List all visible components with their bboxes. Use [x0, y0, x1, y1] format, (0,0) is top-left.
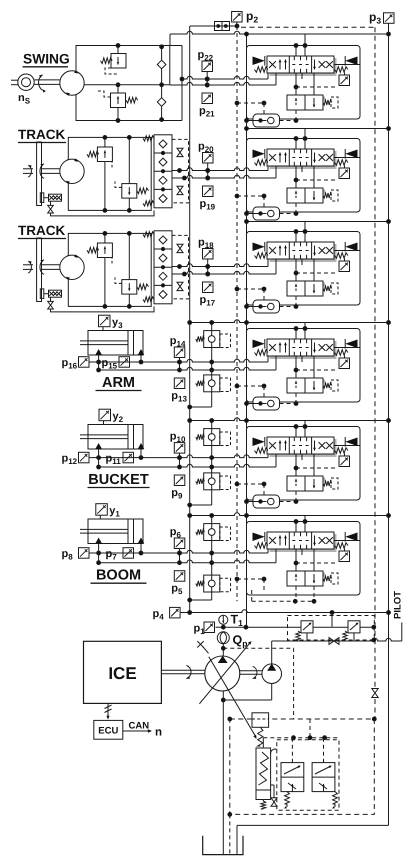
section S3 pilot dashes: [237, 288, 264, 290]
section S1 work port risers: [267, 73, 269, 79]
section S3 right link: [334, 250, 360, 252]
section S1 compensator: [289, 97, 325, 101]
svg-text:TRACK: TRACK: [18, 223, 65, 238]
counterbalance valve block: [156, 135, 172, 140]
flow meter Qp: [217, 632, 229, 644]
dashed LS line: [223, 648, 293, 719]
swing motor M1: [60, 71, 84, 95]
case drain: [197, 641, 203, 647]
rotation arrow: [39, 75, 43, 91]
track tread: [37, 142, 42, 206]
work line A: [90, 359, 269, 362]
work line B: [99, 560, 276, 563]
section S5 shuttle valve: [253, 495, 280, 508]
port arrows: [95, 443, 102, 449]
track motor: [60, 255, 84, 279]
work line A: [90, 455, 269, 458]
valve V3 sensor box: [344, 259, 346, 262]
section S5 frame: [247, 427, 361, 501]
section S4 pilot dashes: [237, 385, 264, 387]
ICE engine block: [84, 641, 162, 703]
pilot solenoid y3: [99, 315, 111, 327]
counterbalance pilot box: [172, 139, 189, 203]
pilot relief valve PRV2: [348, 621, 360, 633]
section S2 compensator feeds: [295, 166, 297, 188]
brake actuator: [40, 193, 44, 203]
section S6 feed line: [190, 513, 389, 516]
section S6 riser: [304, 516, 306, 522]
svg-text:BUCKET: BUCKET: [88, 472, 149, 488]
wire dashed border top: [241, 26, 375, 28]
pilot relief valve PRV1: [301, 621, 313, 633]
sensor p17: [203, 282, 214, 293]
cylinder ARM: [88, 331, 143, 356]
temperature sensor T1: [219, 615, 228, 624]
valve V6 sensor box: [344, 549, 346, 552]
pressure reducing valve lower: [204, 473, 220, 490]
pressure reducing valve upper: [204, 524, 220, 541]
pressure reducing valve lower: [204, 575, 220, 592]
wire to work lines: [211, 348, 213, 371]
valve V3 spring left: [255, 253, 268, 259]
valve V5 pilot cap left: [253, 438, 265, 447]
wire drain: [211, 392, 213, 407]
shaft: [42, 264, 60, 266]
valve V6 spring right: [335, 543, 348, 549]
tank T: [203, 836, 243, 855]
pressure reducing valve lower: [204, 375, 220, 392]
pilot control valve PC2: [312, 763, 335, 792]
swing circuit box: [76, 46, 170, 121]
valve V4 spring right: [335, 350, 348, 356]
valve V2 pilot cap left: [253, 150, 265, 159]
section S4 feed line: [190, 320, 389, 323]
section S4 frame: [247, 329, 361, 403]
section S6 pilot drain dashes: [295, 586, 297, 601]
relief valve 2: [128, 233, 130, 279]
filter F1: [215, 22, 223, 31]
section S6 work port risers: [267, 549, 269, 553]
section S2 work port risers: [267, 166, 269, 171]
wire pilot filter line: [190, 25, 237, 27]
regulator pilot dashes: [263, 737, 339, 739]
valve section V6 body: [270, 548, 337, 553]
work line B: [99, 464, 276, 467]
valve V6 pilot cap left: [253, 533, 265, 542]
track circuit box: [68, 137, 151, 210]
section S4 right link: [334, 347, 360, 349]
section S5 compensator feeds: [295, 454, 297, 476]
wire pilot pressure line: [219, 626, 374, 628]
valve section V2 body: [270, 165, 337, 170]
wire drain: [211, 490, 213, 505]
work line A: [172, 168, 268, 171]
section S2 riser: [304, 129, 306, 139]
section S1 shuttle valve: [253, 114, 280, 127]
svg-text:ICE: ICE: [108, 664, 136, 683]
pressure reducing valve upper: [204, 331, 220, 348]
valve V1 spring left: [255, 67, 268, 73]
brake drain wire: [51, 306, 155, 312]
work line B: [170, 82, 276, 85]
work line A: [172, 264, 268, 267]
port arrows: [95, 538, 102, 544]
section S4 riser: [304, 323, 306, 329]
valve V5 pilot cap right: [345, 438, 357, 447]
valve V5 spring left: [255, 448, 268, 454]
wire dashed pilot rail: [236, 26, 238, 601]
valve V2 spring right: [335, 160, 348, 166]
section S6 compensator: [289, 573, 325, 577]
valve V3 pilot cap left: [253, 243, 265, 252]
pilot control valve PC1: [281, 763, 304, 792]
section S5 right link: [334, 445, 360, 447]
pilot valve dashed box: [288, 616, 375, 641]
pump suction line: [222, 691, 224, 855]
sensor p19: [203, 186, 214, 197]
wire swing mid: [84, 84, 170, 86]
relief valve 2: [128, 137, 130, 183]
section S1 right link: [334, 64, 360, 66]
section S1 riser: [304, 34, 306, 46]
valve V1 pilot cap right: [345, 57, 357, 66]
valve section V5 body: [270, 453, 337, 458]
cylinder BUCKET: [88, 425, 143, 450]
main pump P1: [205, 656, 240, 691]
valve V5 spring right: [335, 448, 348, 454]
gear pump P2: [262, 664, 282, 684]
brake drain wire: [51, 210, 155, 216]
regulator inner dashed box: [277, 740, 339, 811]
section S2 right link: [334, 157, 360, 159]
valve V4 pilot cap left: [253, 340, 265, 349]
section S5 work port risers: [267, 454, 269, 458]
check valves: [160, 45, 164, 49]
gear pump suction: [271, 684, 273, 701]
shaft: [42, 168, 60, 170]
section S4 shuttle valve: [253, 397, 280, 410]
section S6 right link: [334, 540, 360, 542]
section S5 pilot dashes: [237, 483, 264, 485]
counterbalance pilot box: [172, 235, 189, 299]
sensor p21: [202, 93, 213, 104]
pressure reducing valve upper: [204, 429, 220, 446]
pump link shaft: [240, 670, 263, 672]
valve V2 sensor box: [344, 166, 346, 169]
valve V2 pilot cap right: [345, 150, 357, 159]
work line B: [172, 175, 276, 178]
section S3 frame: [247, 232, 361, 306]
return line: [237, 824, 389, 826]
closed port X drain: [329, 638, 339, 645]
regulator spool: [256, 748, 271, 790]
sensor p13: [174, 378, 185, 389]
svg-text:SWING: SWING: [23, 52, 70, 67]
section S2 shuttle valve: [253, 207, 280, 220]
section S6 pilot dashes: [237, 578, 264, 580]
section S1 pilot dashes: [237, 102, 264, 104]
valve V1 pilot cap left: [253, 57, 265, 66]
section S1 compensator feeds: [295, 73, 297, 95]
relief valve: [104, 233, 106, 243]
pilot solenoid y1: [96, 504, 108, 516]
regulator dashed frame: [230, 719, 374, 814]
brake actuator: [40, 289, 44, 299]
wire main feed rail: [246, 34, 248, 627]
ECU box: [94, 720, 123, 739]
swash feedback arrow: [209, 657, 256, 738]
section S3 work port risers: [267, 259, 269, 267]
wire pump discharge: [222, 644, 224, 657]
valve V4 spring left: [255, 350, 268, 356]
section S3 shuttle valve: [253, 300, 280, 313]
wire left pilot rail: [189, 26, 191, 613]
section S3 compensator: [289, 283, 325, 287]
closed port X on border: [372, 689, 378, 698]
valve section V1 body: [270, 72, 337, 77]
work line B: [99, 367, 276, 370]
work line B: [172, 271, 276, 274]
valve section V4 body: [270, 355, 337, 360]
section S2 compensator: [289, 190, 325, 194]
shaft: [35, 79, 60, 81]
wire to work lines: [211, 446, 213, 468]
valve V1 spring right: [335, 67, 348, 73]
section S5 compensator: [289, 478, 325, 482]
section S2 frame: [247, 139, 361, 213]
section S5 riser: [304, 421, 306, 427]
valve section V3 body: [270, 258, 337, 263]
section S6 compensator feeds: [295, 549, 297, 571]
section S4 compensator feeds: [295, 356, 297, 378]
section S2 feed line: [247, 128, 389, 130]
valve V3 pilot cap right: [345, 243, 357, 252]
wire pilot supply: [272, 638, 402, 641]
wire drain: [211, 592, 213, 600]
section S4 compensator: [289, 380, 325, 384]
relief valve RV1: [117, 46, 119, 54]
section S2 pilot dashes: [237, 195, 264, 197]
wire right pilot rail: [388, 23, 390, 825]
track tread: [37, 238, 42, 302]
valve V1 sensor box: [344, 73, 346, 76]
track motor: [60, 159, 84, 183]
section S1 frame: [247, 46, 361, 120]
relief valve RV2: [117, 85, 119, 93]
section S3 riser: [304, 222, 306, 232]
port arrows: [95, 349, 102, 355]
pilot solenoid y2: [99, 409, 111, 421]
sensor p9: [174, 475, 185, 486]
valve V2 spring left: [255, 160, 268, 166]
drive shaft: [161, 669, 205, 671]
sensor p5: [174, 571, 185, 582]
wire to work lines: [211, 541, 213, 563]
svg-text:n: n: [155, 727, 162, 739]
work line A: [182, 76, 268, 79]
electric line to ECU: [107, 703, 109, 717]
wire return line: [180, 610, 388, 613]
work line A: [90, 550, 269, 553]
wire dashed border right: [374, 27, 376, 687]
valve V5 sensor box: [344, 454, 346, 457]
servo piston: [252, 713, 269, 728]
relief valve: [104, 137, 106, 147]
valve V3 spring right: [335, 253, 348, 259]
section S1 feed line: [170, 31, 389, 34]
valve V4 pilot cap right: [345, 340, 357, 349]
svg-text:ARM: ARM: [102, 375, 135, 391]
section S4 work port risers: [267, 356, 269, 362]
speed sensor n_s: [18, 74, 34, 90]
counterbalance valve block: [156, 231, 172, 236]
drain dashed line: [229, 814, 231, 854]
track circuit box: [68, 233, 151, 306]
svg-text:TRACK: TRACK: [18, 127, 65, 142]
svg-text:BOOM: BOOM: [96, 568, 141, 584]
valve V4 sensor box: [344, 356, 346, 359]
section S3 feed line: [247, 221, 389, 223]
valve V6 pilot cap right: [345, 533, 357, 542]
cylinder BOOM: [88, 519, 143, 544]
svg-text:PILOT: PILOT: [393, 591, 404, 619]
section S6 frame: [247, 522, 361, 596]
svg-text:ECU: ECU: [98, 726, 118, 737]
sensor p2: [232, 12, 243, 23]
gear pump outlet: [271, 641, 273, 664]
valve V6 spring left: [255, 543, 268, 549]
section S5 feed line: [190, 418, 389, 421]
section S3 compensator feeds: [295, 259, 297, 281]
svg-text:CAN: CAN: [129, 721, 150, 732]
